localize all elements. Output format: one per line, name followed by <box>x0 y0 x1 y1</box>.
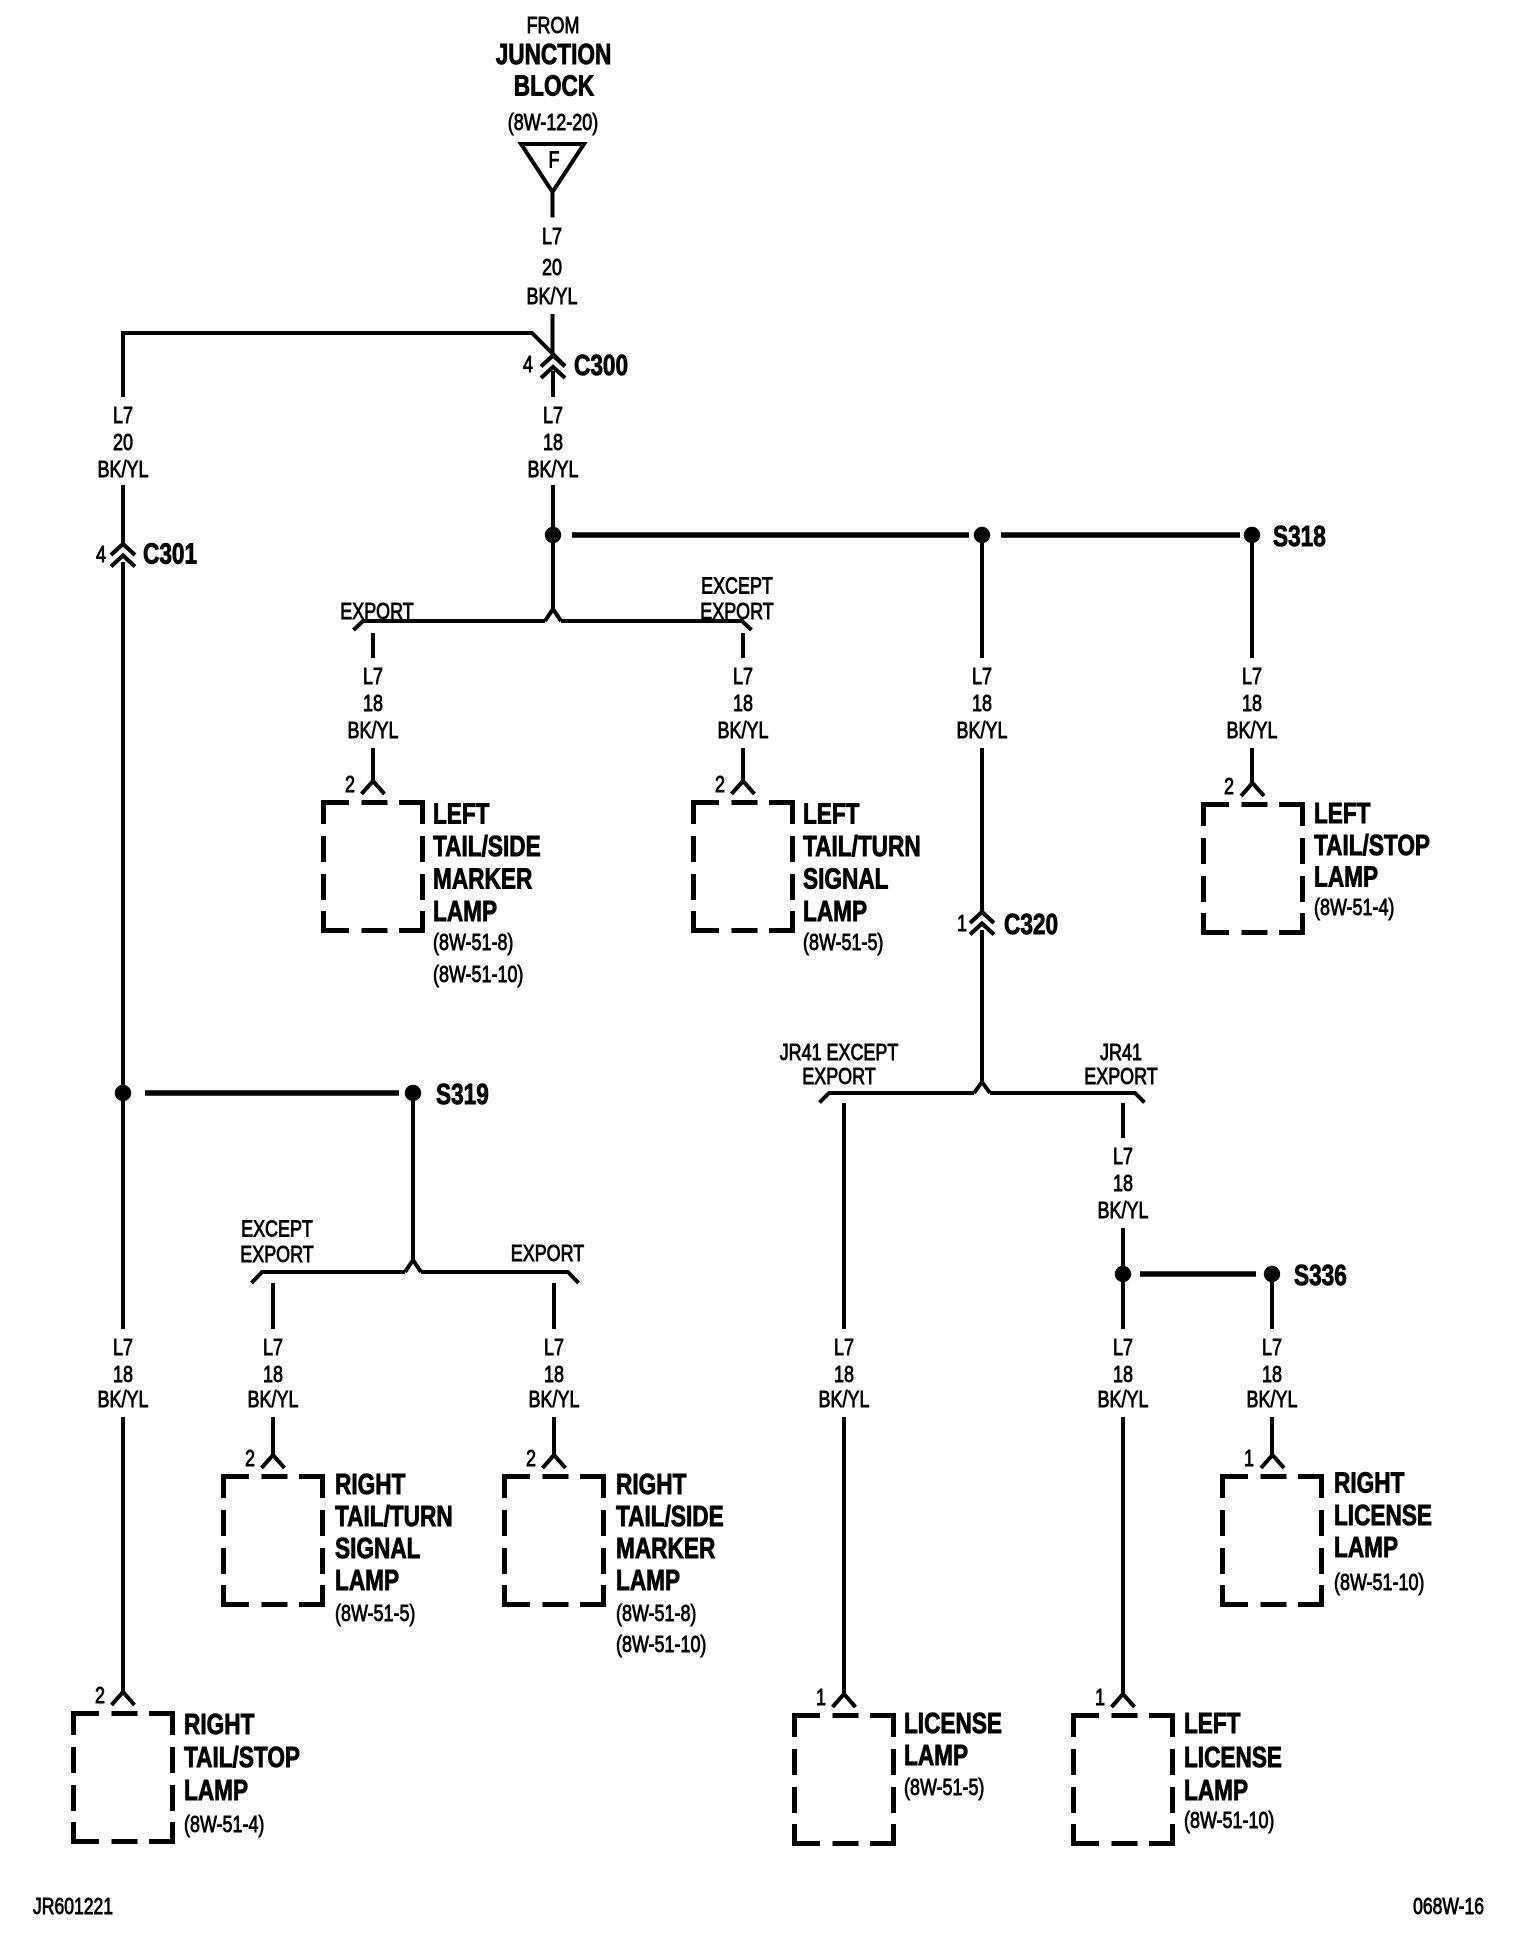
svg-text:LAMP: LAMP <box>616 1565 680 1597</box>
connector fork at left tail/stop lamp <box>1241 783 1264 796</box>
svg-text:RIGHT: RIGHT <box>616 1469 687 1501</box>
svg-text:LEFT: LEFT <box>803 799 860 831</box>
splice S318 junction dot middle <box>974 527 990 543</box>
wire from S318 to option split <box>551 543 555 611</box>
wire to left tail/stop fork <box>1250 748 1254 783</box>
svg-text:2: 2 <box>95 1682 105 1708</box>
svg-text:L7: L7 <box>972 663 992 689</box>
right license lamp box <box>1223 1477 1322 1605</box>
svg-text:(8W-51-5): (8W-51-5) <box>335 1600 415 1626</box>
wire S319 to right tail/stop lamp <box>121 1101 125 1329</box>
wire to right tail/turn fork <box>271 1417 275 1455</box>
wire label L7 18 BK/YL (left license lamp wire) <box>1098 1334 1149 1412</box>
connector fork at right license lamp <box>1261 1455 1284 1468</box>
left tail/stop lamp box <box>1204 805 1303 933</box>
svg-text:TAIL/SIDE: TAIL/SIDE <box>433 831 541 863</box>
svg-text:RIGHT: RIGHT <box>335 1469 406 1501</box>
wire stub JR41 export branch <box>1121 1103 1125 1138</box>
svg-text:TAIL/STOP: TAIL/STOP <box>1314 830 1430 862</box>
svg-text:TAIL/TURN: TAIL/TURN <box>335 1501 453 1533</box>
connector fork at left tail/turn signal lamp <box>732 781 755 794</box>
wire label L7 18 BK/YL (JR41 export wire) <box>1098 1143 1149 1223</box>
splice S336 junction dot left <box>1115 1266 1131 1282</box>
label EXCEPT EXPORT (right branch) <box>700 573 773 625</box>
svg-text:BK/YL: BK/YL <box>248 1386 299 1412</box>
svg-text:EXPORT: EXPORT <box>1084 1063 1157 1089</box>
wire S318 to left tail/stop lamp <box>1250 543 1254 658</box>
svg-text:SIGNAL: SIGNAL <box>803 864 889 896</box>
svg-text:BK/YL: BK/YL <box>819 1386 870 1412</box>
wire into splice S336 <box>1121 1228 1125 1274</box>
svg-text:(8W-51-10): (8W-51-10) <box>616 1631 706 1657</box>
svg-text:LAMP: LAMP <box>1314 862 1378 894</box>
wire label L7 18 BK/YL (right tail/stop wire) <box>98 1334 149 1412</box>
svg-text:TAIL/STOP: TAIL/STOP <box>184 1742 300 1774</box>
svg-text:FROM: FROM <box>527 12 580 38</box>
svg-text:BK/YL: BK/YL <box>528 456 579 482</box>
svg-text:1: 1 <box>1095 1684 1105 1710</box>
right tail/stop lamp box <box>74 1714 173 1842</box>
connector fork at right tail/stop lamp <box>112 1692 135 1705</box>
svg-text:(8W-51-5): (8W-51-5) <box>803 929 883 955</box>
svg-text:(8W-51-4): (8W-51-4) <box>1314 894 1394 920</box>
label JR41 EXPORT (right branch) <box>1084 1039 1157 1089</box>
svg-text:4: 4 <box>96 541 106 567</box>
svg-text:BK/YL: BK/YL <box>1227 717 1278 743</box>
svg-text:BK/YL: BK/YL <box>1247 1386 1298 1412</box>
svg-text:BLOCK: BLOCK <box>514 71 594 103</box>
svg-text:C300: C300 <box>574 350 628 382</box>
wire S336 to left license lamp <box>1121 1282 1125 1329</box>
svg-text:1: 1 <box>1244 1445 1254 1471</box>
connector fork at right tail/side marker lamp <box>543 1455 566 1468</box>
svg-text:LAMP: LAMP <box>1334 1532 1398 1564</box>
svg-text:18: 18 <box>1113 1170 1133 1196</box>
svg-text:LICENSE: LICENSE <box>1184 1742 1282 1774</box>
svg-text:(8W-51-5): (8W-51-5) <box>904 1774 984 1800</box>
svg-text:L7: L7 <box>544 1334 564 1360</box>
svg-text:EXPORT: EXPORT <box>240 1241 313 1267</box>
S319 bus wire <box>145 1090 399 1096</box>
splice S336 junction dot right <box>1264 1266 1280 1282</box>
wire C300 to splice S318 <box>551 485 555 535</box>
svg-text:RIGHT: RIGHT <box>184 1709 255 1741</box>
connector C320 symbol <box>970 912 994 935</box>
wire label L7 18 BK/YL (except-export branch wire) <box>718 663 769 743</box>
svg-text:F: F <box>549 147 560 173</box>
svg-text:18: 18 <box>544 1361 564 1387</box>
splice S319 junction dot left <box>115 1085 131 1101</box>
svg-text:JR601221: JR601221 <box>33 1893 113 1919</box>
svg-text:18: 18 <box>543 429 563 455</box>
svg-text:L7: L7 <box>834 1334 854 1360</box>
connector C300 symbol <box>541 356 565 379</box>
S318 bus wire right segment <box>1001 532 1240 538</box>
wire stub export branch <box>371 633 375 658</box>
wire label L7 18 BK/YL (right tail/turn wire) <box>248 1334 299 1412</box>
svg-text:EXPORT: EXPORT <box>700 598 773 624</box>
wire to right tail/stop fork <box>121 1417 125 1692</box>
svg-text:TAIL/SIDE: TAIL/SIDE <box>616 1501 724 1533</box>
svg-text:2: 2 <box>1224 773 1234 799</box>
svg-text:LAMP: LAMP <box>803 896 867 928</box>
right license lamp name <box>1334 1468 1432 1596</box>
svg-text:LEFT: LEFT <box>1314 798 1371 830</box>
wire C301 to splice S319 <box>121 562 125 1093</box>
wire branch to left at top <box>123 333 565 397</box>
svg-text:BK/YL: BK/YL <box>718 717 769 743</box>
svg-text:SIGNAL: SIGNAL <box>335 1533 421 1565</box>
option split bar with EXPORT / EXCEPT EXPORT branches <box>354 609 752 630</box>
svg-text:(8W-51-10): (8W-51-10) <box>433 961 523 987</box>
wire into C320 <box>980 748 984 912</box>
connector fork at left tail/side marker lamp <box>362 781 385 794</box>
connector fork at license lamp <box>833 1694 856 1707</box>
svg-text:BK/YL: BK/YL <box>98 456 149 482</box>
svg-text:(8W-12-20): (8W-12-20) <box>508 109 598 135</box>
svg-text:18: 18 <box>1113 1361 1133 1387</box>
right tail/side marker lamp name <box>616 1469 724 1657</box>
wire to left license lamp fork <box>1121 1417 1125 1694</box>
svg-text:18: 18 <box>834 1361 854 1387</box>
svg-text:18: 18 <box>733 690 753 716</box>
feed symbol F (triangle from junction block) <box>521 144 584 192</box>
svg-text:BK/YL: BK/YL <box>98 1386 149 1412</box>
wire label L7 20 BK/YL (left top wire) <box>98 402 149 482</box>
connector fork at left license lamp <box>1112 1694 1135 1707</box>
svg-text:LAMP: LAMP <box>1184 1775 1248 1807</box>
svg-text:BK/YL: BK/YL <box>1098 1197 1149 1223</box>
svg-text:2: 2 <box>715 771 725 797</box>
svg-text:L7: L7 <box>543 402 563 428</box>
wire label L7 18 BK/YL (right license lamp wire) <box>1247 1334 1298 1412</box>
svg-text:L7: L7 <box>113 1334 133 1360</box>
right tail/turn signal lamp name <box>335 1469 453 1626</box>
license lamp name <box>904 1708 1002 1800</box>
svg-text:TAIL/TURN: TAIL/TURN <box>803 831 921 863</box>
svg-text:LAMP: LAMP <box>335 1565 399 1597</box>
right tail/side marker lamp box <box>505 1477 604 1605</box>
left tail/side marker lamp box <box>324 803 423 931</box>
svg-text:2: 2 <box>245 1445 255 1471</box>
wire stub except-export branch <box>741 633 745 658</box>
svg-text:18: 18 <box>363 690 383 716</box>
svg-text:L7: L7 <box>542 223 562 249</box>
wire to license lamp fork <box>842 1417 846 1694</box>
S319 option split bar <box>252 1260 579 1283</box>
wire label L7 18 BK/YL (left tail/stop wire) <box>1227 663 1278 743</box>
label EXCEPT EXPORT (left branch) <box>240 1216 313 1268</box>
svg-text:MARKER: MARKER <box>433 864 532 896</box>
wire label L7 18 BK/YL (wire below C300) <box>528 402 579 482</box>
svg-text:18: 18 <box>1262 1361 1282 1387</box>
svg-text:BK/YL: BK/YL <box>957 717 1008 743</box>
svg-text:4: 4 <box>523 351 533 377</box>
left license lamp box <box>1074 1716 1173 1844</box>
wire JR41 except-export branch to license lamp <box>842 1103 846 1329</box>
wire to left tail/turn signal lamp <box>741 748 745 781</box>
label JR41 EXCEPT EXPORT (left branch) <box>780 1039 899 1089</box>
svg-text:L7: L7 <box>733 663 753 689</box>
svg-text:LICENSE: LICENSE <box>1334 1500 1432 1532</box>
svg-text:1: 1 <box>816 1684 826 1710</box>
svg-text:068W-16: 068W-16 <box>1413 1893 1484 1919</box>
wire S319 to option split <box>411 1101 415 1262</box>
svg-text:BK/YL: BK/YL <box>527 283 578 309</box>
svg-text:18: 18 <box>1242 690 1262 716</box>
splice S318 junction dot right <box>1244 527 1260 543</box>
svg-text:(8W-51-8): (8W-51-8) <box>433 929 513 955</box>
wire label L7 20 BK/YL (feed wire) <box>527 223 578 309</box>
right tail/turn signal lamp box <box>224 1477 323 1605</box>
svg-text:LEFT: LEFT <box>433 799 490 831</box>
svg-text:JUNCTION: JUNCTION <box>496 39 612 71</box>
svg-text:EXCEPT: EXCEPT <box>241 1216 313 1242</box>
svg-text:(8W-51-10): (8W-51-10) <box>1184 1807 1274 1833</box>
wire label L7 18 BK/YL (license lamp wire) <box>819 1334 870 1412</box>
svg-text:S318: S318 <box>1273 521 1326 553</box>
svg-text:RIGHT: RIGHT <box>1334 1468 1405 1500</box>
svg-text:L7: L7 <box>1113 1143 1133 1169</box>
wire to left tail/side marker lamp <box>371 748 375 781</box>
svg-text:L7: L7 <box>363 663 383 689</box>
wire stub except-export branch <box>271 1283 275 1329</box>
wire label L7 18 BK/YL (wire to C320) <box>957 663 1008 743</box>
svg-text:S319: S319 <box>436 1079 489 1111</box>
svg-text:BK/YL: BK/YL <box>1098 1386 1149 1412</box>
license lamp box <box>795 1716 894 1844</box>
svg-text:C320: C320 <box>1004 909 1058 941</box>
left tail/stop lamp name <box>1314 798 1430 920</box>
label FROM JUNCTION BLOCK (8W-12-20) <box>496 12 612 135</box>
svg-text:JR41: JR41 <box>1100 1039 1142 1065</box>
left tail/turn signal lamp name <box>803 799 921 956</box>
svg-text:LAMP: LAMP <box>904 1740 968 1772</box>
svg-text:MARKER: MARKER <box>616 1533 715 1565</box>
svg-text:C301: C301 <box>143 539 197 571</box>
left license lamp name <box>1184 1708 1282 1833</box>
wire into C301 <box>121 485 125 544</box>
svg-text:2: 2 <box>345 771 355 797</box>
svg-text:L7: L7 <box>1242 663 1262 689</box>
svg-text:LICENSE: LICENSE <box>904 1708 1002 1740</box>
left tail/turn signal lamp box <box>694 803 793 931</box>
wire label L7 18 BK/YL (right tail/side marker wire) <box>529 1334 580 1412</box>
svg-text:EXPORT: EXPORT <box>511 1240 584 1266</box>
wire above C300 <box>551 314 555 356</box>
svg-text:LAMP: LAMP <box>433 896 497 928</box>
svg-text:18: 18 <box>263 1361 283 1387</box>
wire to right license lamp fork <box>1270 1417 1274 1455</box>
wire from middle splice down <box>980 543 984 658</box>
wire from F down <box>551 192 555 218</box>
wire C320 to JR41 option split <box>980 930 984 1082</box>
svg-text:BK/YL: BK/YL <box>529 1386 580 1412</box>
svg-text:L7: L7 <box>1262 1334 1282 1360</box>
JR41 option split bar <box>820 1082 1145 1103</box>
svg-text:(8W-51-4): (8W-51-4) <box>184 1811 264 1837</box>
svg-text:(8W-51-8): (8W-51-8) <box>616 1600 696 1626</box>
left tail/side marker lamp name <box>433 799 541 988</box>
wire stub export branch <box>552 1283 556 1329</box>
splice S318 junction dot left <box>545 527 561 543</box>
svg-text:(8W-51-10): (8W-51-10) <box>1334 1569 1424 1595</box>
svg-text:L7: L7 <box>1113 1334 1133 1360</box>
svg-text:JR41 EXCEPT: JR41 EXCEPT <box>780 1039 899 1065</box>
svg-text:EXPORT: EXPORT <box>340 598 413 624</box>
svg-text:20: 20 <box>542 254 562 280</box>
S336 bus wire <box>1140 1271 1256 1277</box>
svg-text:LAMP: LAMP <box>184 1775 248 1807</box>
connector fork at right tail/turn signal lamp <box>262 1455 285 1468</box>
svg-text:18: 18 <box>972 690 992 716</box>
svg-text:2: 2 <box>526 1445 536 1471</box>
splice S319 junction dot right <box>405 1085 421 1101</box>
svg-text:L7: L7 <box>113 402 133 428</box>
connector C301 symbol <box>111 544 135 567</box>
svg-text:20: 20 <box>113 429 133 455</box>
svg-text:1: 1 <box>957 910 967 936</box>
wire S336 to right license lamp <box>1270 1282 1274 1329</box>
svg-text:BK/YL: BK/YL <box>348 717 399 743</box>
svg-text:LEFT: LEFT <box>1184 1708 1241 1740</box>
svg-text:S336: S336 <box>1294 1260 1347 1292</box>
svg-text:18: 18 <box>113 1361 133 1387</box>
wire to right tail/side marker fork <box>552 1417 556 1455</box>
S318 bus wire left segment <box>572 532 969 538</box>
svg-text:EXCEPT: EXCEPT <box>701 573 773 599</box>
svg-text:L7: L7 <box>263 1334 283 1360</box>
right tail/stop lamp name <box>184 1709 300 1837</box>
wire label L7 18 BK/YL (export branch wire) <box>348 663 399 743</box>
svg-text:EXPORT: EXPORT <box>802 1063 875 1089</box>
wire below C300 <box>551 371 555 397</box>
